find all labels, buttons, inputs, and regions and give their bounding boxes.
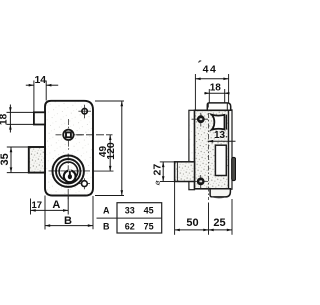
svg-text:A: A — [103, 205, 110, 215]
cylinder (side view) — [175, 162, 195, 182]
svg-text:120: 120 — [105, 142, 117, 160]
lock case (side view) — [195, 110, 229, 189]
dashed centerline (side view) — [208, 103, 210, 201]
deadbolt tab (side view, dark) — [232, 157, 236, 180]
svg-text:B: B — [64, 215, 72, 227]
top cap (latch housing, side view) — [207, 103, 230, 110]
back plate (side view) — [189, 110, 195, 189]
dimension 18 (latch height, left) — [0, 105, 34, 133]
svg-text:18: 18 — [0, 113, 9, 125]
dimension B (bottom) — [45, 196, 93, 229]
svg-text:62: 62 — [125, 222, 135, 232]
screw bottom-right (front view) — [79, 178, 90, 189]
svg-text:50: 50 — [186, 217, 198, 229]
cylinder plug with key slot — [64, 170, 76, 183]
dimension 49 (follower to cylinder) — [76, 135, 114, 171]
lock body (front view) — [45, 101, 93, 196]
dimension ø27 (cylinder diameter) — [151, 162, 174, 186]
dimension 35 (deadbolt height) — [0, 147, 29, 173]
bottom foot cap (side view) — [210, 189, 230, 198]
svg-text:14: 14 — [34, 74, 46, 86]
dimension 14 (latch protrusion) — [26, 74, 58, 112]
latch bolt spool (side view) — [212, 115, 227, 130]
deadbolt (front view) — [29, 147, 45, 173]
dimension 44 (case width) — [195, 61, 228, 110]
svg-text:45: 45 — [144, 206, 154, 216]
screw top-right (front view) — [78, 105, 91, 118]
dimension 120 (body height) — [95, 101, 124, 196]
cylinder rings (front view) — [49, 154, 91, 200]
latch bolt (top, front view) — [34, 112, 45, 124]
key slot opening (side view) — [215, 145, 226, 175]
svg-text:25: 25 — [213, 217, 225, 229]
dimension 17 and A (bottom) — [31, 196, 69, 230]
screw bottom (side view, black) — [192, 175, 209, 189]
screw top (side view, black) — [192, 113, 209, 127]
dimension 50 and 25 (bottom right) — [175, 182, 232, 235]
follower square hub — [56, 119, 83, 151]
dimension 13 (latch offset) — [208, 130, 236, 143]
svg-text:18: 18 — [210, 83, 222, 94]
svg-text:B: B — [103, 221, 110, 231]
svg-text:33: 33 — [125, 206, 135, 216]
svg-text:35: 35 — [0, 153, 11, 165]
svg-text:ø: ø — [152, 179, 162, 186]
svg-text:A: A — [52, 199, 60, 211]
table A/B values — [97, 203, 162, 233]
dimension 18 (latch width, side view) — [204, 83, 229, 103]
svg-text:13: 13 — [214, 130, 226, 141]
faceplate strip (side view) — [229, 110, 232, 189]
svg-text:75: 75 — [144, 222, 154, 232]
svg-text:44: 44 — [203, 63, 218, 75]
svg-text:27: 27 — [151, 164, 163, 176]
svg-text:17: 17 — [32, 200, 43, 211]
